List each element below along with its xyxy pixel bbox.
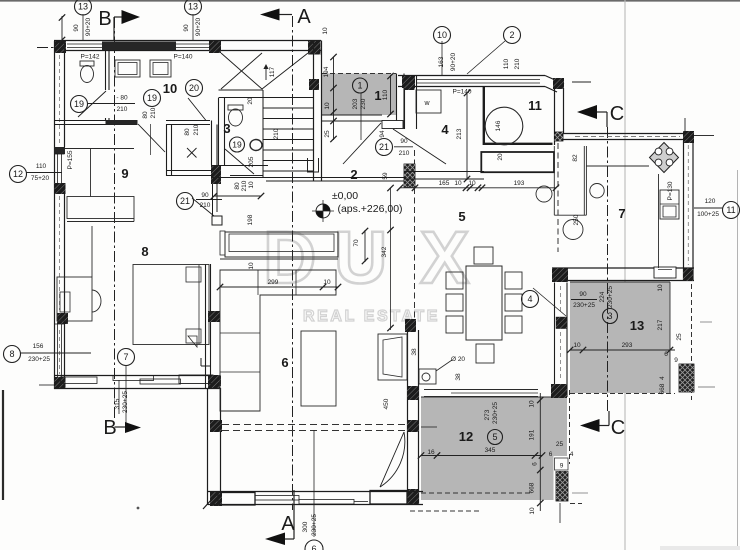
svg-text:4: 4: [659, 376, 666, 380]
svg-text:80: 80: [234, 182, 241, 190]
svg-text:13: 13: [188, 2, 198, 12]
svg-text:210: 210: [193, 124, 200, 135]
svg-text:3: 3: [607, 311, 612, 321]
svg-text:10: 10: [324, 102, 331, 110]
svg-text:156: 156: [33, 343, 44, 350]
svg-text:6: 6: [311, 544, 316, 550]
svg-text:38: 38: [411, 348, 418, 356]
svg-text:300: 300: [302, 521, 309, 532]
svg-text:4: 4: [570, 451, 574, 458]
svg-text:P=130: P=130: [667, 181, 674, 200]
svg-text:6: 6: [664, 351, 668, 358]
svg-text:146: 146: [495, 120, 502, 131]
svg-text:U: U: [334, 216, 387, 299]
svg-text:273: 273: [484, 409, 491, 420]
svg-text:299: 299: [268, 279, 279, 286]
svg-text:w: w: [423, 100, 430, 107]
svg-text:1: 1: [374, 88, 381, 103]
svg-text:90: 90: [73, 24, 80, 32]
svg-text:4: 4: [527, 294, 532, 304]
svg-text:191: 191: [529, 429, 536, 440]
svg-text:315: 315: [114, 398, 121, 409]
svg-text:B: B: [98, 8, 111, 30]
svg-text:20: 20: [497, 153, 504, 161]
svg-text:293: 293: [622, 342, 633, 349]
svg-text:8: 8: [9, 349, 14, 359]
svg-text:9: 9: [560, 463, 564, 470]
svg-text:10: 10: [573, 342, 581, 349]
svg-text:10: 10: [529, 400, 536, 408]
svg-text:203: 203: [352, 98, 359, 109]
svg-text:210: 210: [399, 150, 410, 157]
svg-text:224: 224: [599, 291, 606, 302]
svg-text:163: 163: [438, 56, 445, 67]
svg-text:90+20: 90+20: [195, 17, 202, 36]
svg-text:250: 250: [573, 214, 580, 225]
svg-text:8: 8: [141, 244, 148, 259]
svg-text:A: A: [297, 6, 311, 28]
svg-text:19: 19: [232, 140, 242, 150]
svg-text:13: 13: [78, 2, 88, 12]
svg-text:±0,00: ±0,00: [332, 190, 358, 202]
svg-text:80: 80: [142, 111, 149, 119]
svg-text:210: 210: [273, 128, 280, 139]
svg-text:10: 10: [248, 181, 255, 189]
svg-text:230+25: 230+25: [573, 302, 595, 309]
svg-text:(aps.+226,00): (aps.+226,00): [337, 203, 402, 215]
svg-text:10: 10: [248, 262, 255, 270]
svg-text:75+20: 75+20: [31, 175, 50, 182]
svg-text:210: 210: [241, 180, 248, 191]
svg-text:6: 6: [532, 462, 539, 466]
svg-text:25: 25: [676, 333, 683, 341]
svg-text:2: 2: [509, 30, 514, 40]
svg-text:16: 16: [427, 449, 435, 456]
svg-text:10: 10: [437, 30, 447, 40]
svg-text:110: 110: [36, 163, 47, 170]
svg-text:10: 10: [163, 81, 177, 96]
svg-text:213: 213: [456, 128, 463, 139]
svg-text:82: 82: [572, 154, 579, 162]
svg-text:2: 2: [350, 167, 357, 182]
svg-text:A: A: [281, 513, 295, 535]
svg-text:21: 21: [180, 196, 190, 206]
svg-text:X: X: [420, 216, 469, 299]
svg-text:C: C: [611, 417, 625, 439]
svg-text:P=142: P=142: [81, 54, 100, 61]
svg-text:100+25: 100+25: [697, 211, 719, 218]
svg-text:217: 217: [657, 319, 664, 330]
svg-text:10: 10: [322, 27, 329, 35]
svg-text:25: 25: [556, 441, 564, 448]
svg-text:4: 4: [441, 122, 449, 137]
svg-text:C: C: [610, 103, 624, 125]
svg-text:12: 12: [459, 429, 473, 444]
svg-text:668: 668: [529, 482, 536, 493]
svg-text:80: 80: [184, 128, 191, 136]
svg-text:205: 205: [248, 156, 255, 167]
svg-text:11: 11: [726, 205, 735, 215]
svg-text:10: 10: [323, 279, 331, 286]
svg-text:230: 230: [360, 98, 367, 109]
svg-text:70: 70: [353, 239, 360, 247]
svg-text:10: 10: [468, 180, 476, 187]
svg-text:7: 7: [123, 352, 128, 362]
svg-text:21: 21: [379, 142, 389, 152]
svg-text:5: 5: [458, 209, 465, 224]
svg-text:6: 6: [549, 451, 553, 458]
svg-text:1: 1: [357, 81, 362, 91]
svg-text:117: 117: [269, 66, 276, 77]
svg-text:9: 9: [121, 166, 128, 181]
svg-text:Ø 20: Ø 20: [451, 356, 465, 363]
svg-text:210: 210: [117, 106, 128, 113]
svg-text:194: 194: [323, 66, 330, 77]
svg-text:25: 25: [324, 130, 331, 138]
svg-text:90+20: 90+20: [450, 52, 457, 71]
svg-text:90: 90: [579, 291, 587, 298]
svg-text:668: 668: [659, 383, 666, 394]
svg-text:19: 19: [74, 99, 84, 109]
svg-text:10: 10: [657, 284, 664, 292]
svg-text:13: 13: [630, 318, 644, 333]
svg-text:11: 11: [528, 98, 542, 113]
svg-text:345: 345: [485, 447, 496, 454]
svg-text:6: 6: [281, 355, 288, 370]
svg-text:198: 198: [247, 214, 254, 225]
svg-text:342: 342: [381, 246, 388, 257]
svg-text:120: 120: [705, 198, 716, 205]
svg-text:- 80: - 80: [116, 95, 128, 102]
svg-text:90: 90: [183, 24, 190, 32]
svg-text:193: 193: [514, 180, 525, 187]
svg-text:210: 210: [200, 202, 211, 209]
svg-text:59: 59: [382, 172, 389, 180]
svg-text:94: 94: [379, 130, 386, 138]
svg-text:12: 12: [13, 169, 23, 179]
svg-text:9: 9: [674, 357, 678, 364]
svg-text:90+20: 90+20: [85, 17, 92, 36]
svg-text:90: 90: [201, 192, 209, 199]
svg-text:230+25: 230+25: [311, 514, 318, 536]
svg-text:230+25: 230+25: [492, 402, 499, 424]
svg-text:165: 165: [439, 180, 450, 187]
svg-text:10: 10: [529, 507, 536, 515]
svg-text:10: 10: [454, 180, 462, 187]
svg-text:7: 7: [618, 206, 625, 221]
svg-text:20: 20: [247, 97, 254, 105]
svg-text:REAL ESTATE: REAL ESTATE: [303, 308, 440, 325]
svg-text:P=155: P=155: [67, 150, 74, 169]
svg-text:230+25: 230+25: [607, 286, 614, 308]
svg-text:5: 5: [492, 432, 497, 442]
svg-text:P=140: P=140: [174, 54, 193, 61]
svg-text:230+25: 230+25: [122, 391, 129, 413]
svg-text:450: 450: [383, 398, 390, 409]
svg-text:90: 90: [400, 138, 408, 145]
svg-text:P=140: P=140: [453, 89, 472, 96]
svg-text:210: 210: [150, 107, 157, 118]
svg-text:20: 20: [189, 83, 199, 93]
svg-text:110: 110: [503, 58, 510, 69]
svg-text:110: 110: [382, 89, 389, 100]
svg-text:19: 19: [147, 93, 157, 103]
svg-text:210: 210: [514, 58, 521, 69]
svg-text:38: 38: [455, 373, 462, 381]
svg-text:230+25: 230+25: [28, 356, 50, 363]
svg-text:B: B: [103, 417, 116, 439]
svg-text:3: 3: [223, 121, 230, 136]
